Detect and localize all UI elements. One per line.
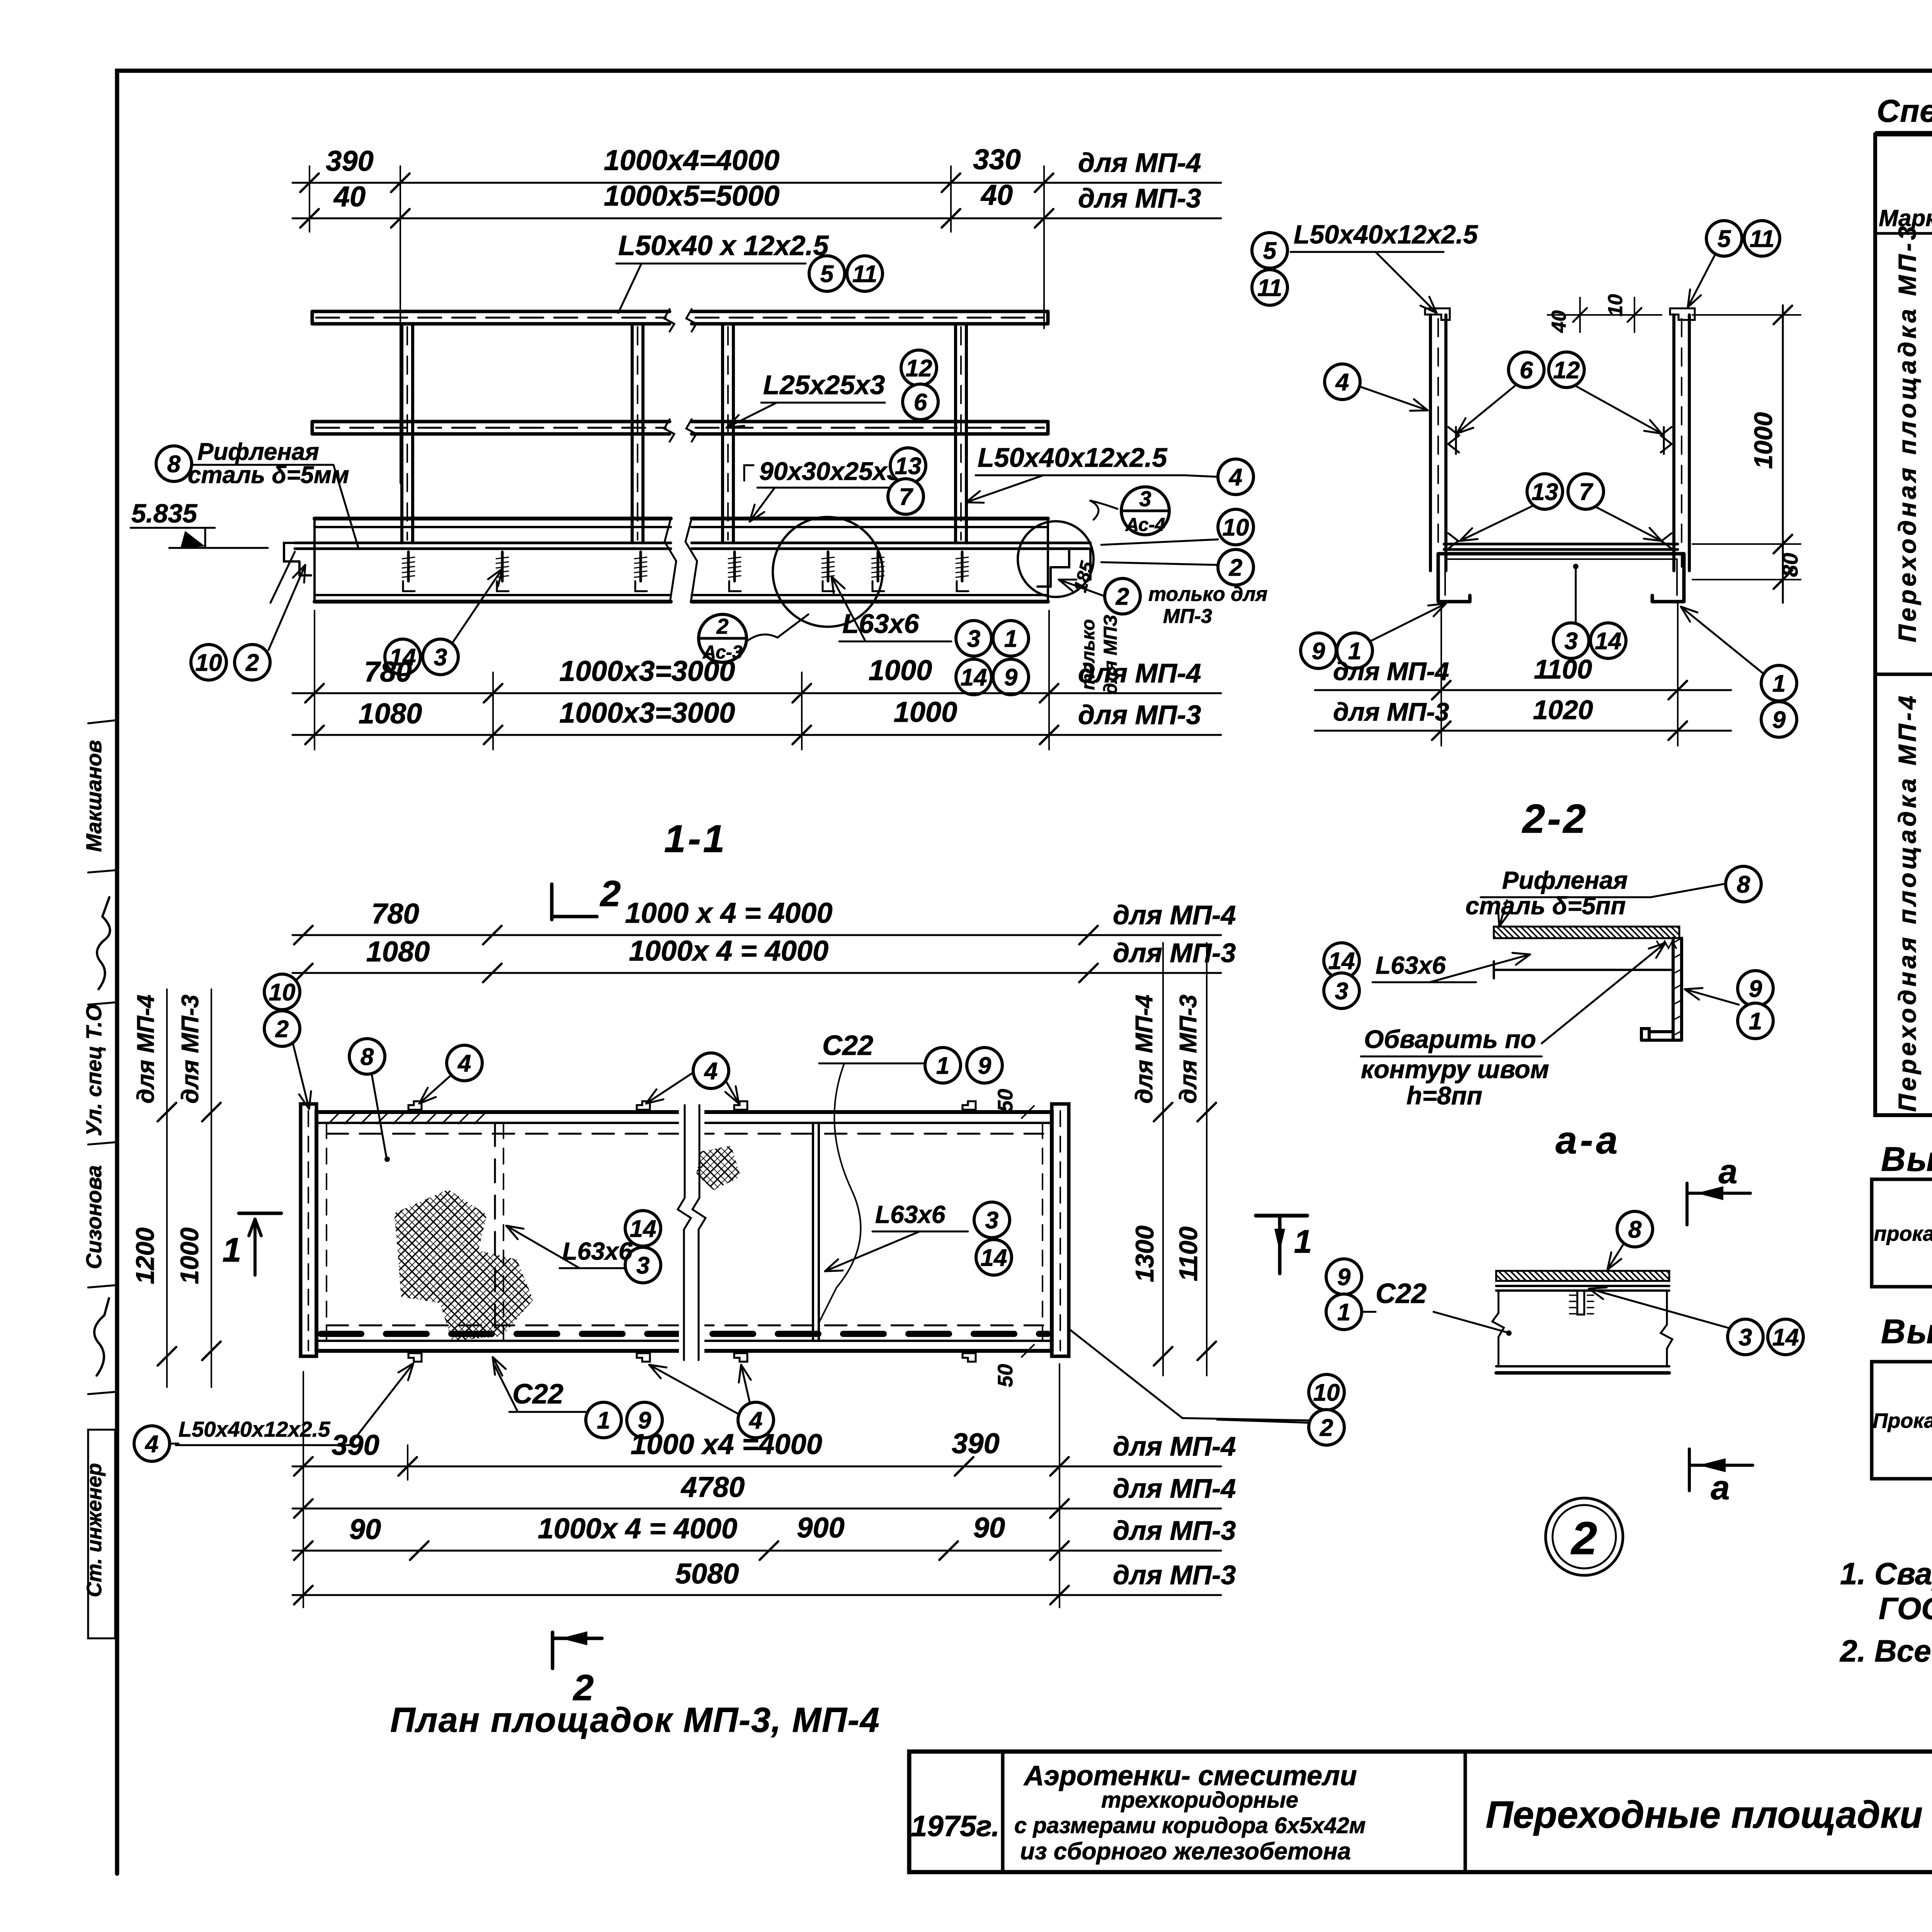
plan inner dashed lines [327,1133,1043,1135]
bubble 4 top1 [447,1045,482,1081]
signature squiggle 2 [94,1298,109,1376]
bubbles 10 2 top-left of plan [264,974,300,1010]
section 1-1 : top dimension line (MP-4) [293,182,1221,184]
svg-text:90: 90 [349,1513,381,1545]
rail connection clips [1448,427,1459,454]
bubbles 3 14 (a-a) [1728,1319,1763,1355]
section marker a (bottom) [1688,1449,1691,1491]
section marker 1 (left of plan) [239,1212,281,1215]
svg-text:2. Все сварные швы h = 4мм: 2. Все сварные швы h = 4мм. [1839,1634,1932,1668]
svg-text:8: 8 [361,1044,374,1070]
svg-text:2: 2 [1229,554,1242,581]
svg-text:3: 3 [1739,1324,1752,1351]
svg-text:для МП-3: для МП-3 [1078,700,1201,730]
weld stud [1577,1291,1584,1315]
svg-text:14: 14 [1328,948,1355,975]
svg-text:3: 3 [1565,628,1578,655]
svg-text:1000 x 4 = 4000: 1000 x 4 = 4000 [625,897,832,929]
svg-text:С22: С22 [822,1030,873,1061]
svg-text:90: 90 [973,1512,1005,1544]
floor plate 2-2 [1444,543,1678,546]
section marker a (top) [1685,1183,1689,1225]
svg-text:для МП-4: для МП-4 [133,995,159,1104]
svg-text:Ул. спец Т.О: Ул. спец Т.О [82,1004,106,1136]
svg-text:1-1: 1-1 [664,817,727,861]
svg-text:контуру швом: контуру швом [1361,1055,1549,1083]
svg-text:40: 40 [333,180,366,213]
svg-text:для МП-3: для МП-3 [1113,1515,1236,1546]
svg-text:14: 14 [630,1216,656,1242]
bubbles 9 1 lower-left [1301,633,1336,668]
svg-text:2: 2 [600,873,621,914]
svg-text:для МП-4: для МП-4 [1113,1431,1236,1461]
svg-text:для МП-3: для МП-3 [1078,183,1201,213]
split bubble 2/Ac-3 [699,614,747,662]
svg-text:для МП-3: для МП-3 [1333,697,1449,726]
svg-text:из сборного железобетона: из сборного железобетона [1020,1838,1351,1865]
svg-text:11: 11 [852,261,877,287]
svg-text:80: 80 [1778,553,1802,577]
svg-text:8: 8 [1628,1216,1642,1243]
svg-text:ГОСТ 9467-60.: ГОСТ 9467-60. [1879,1591,1932,1626]
right post (channel) [1672,315,1675,571]
svg-text:Рифленая: Рифленая [197,439,319,465]
svg-text:4: 4 [457,1050,471,1077]
bubbles 3 14 below floor [1553,623,1589,658]
detail circle around bolt [773,517,883,627]
bubbles 10 2 lower left [191,645,226,680]
left post (channel) [1429,315,1432,571]
svg-text:а: а [1711,1468,1730,1507]
bubble 4 with arrow to left post [1325,364,1360,400]
svg-text:3: 3 [1139,486,1151,511]
separator ticks [88,720,116,723]
node marker circled 2 [1546,1498,1623,1575]
split bubble 3/Ac-4 [1090,500,1117,520]
bubbles 1 9 lower-right [1761,665,1797,701]
svg-text:1: 1 [1772,670,1786,697]
svg-text:1000: 1000 [869,654,932,686]
svg-text:40: 40 [1548,310,1570,333]
svg-text:L63x6: L63x6 [1376,951,1446,979]
section 2-2 : callout L50x40x12x2.5 bubbles 5 11 (left) [1252,233,1287,268]
svg-text:8: 8 [1737,871,1750,898]
plan left end plate [301,1104,316,1356]
detail: checkered plate on C22 [1494,927,1679,938]
extension lines [400,166,401,483]
svg-text:1000x3=3000: 1000x3=3000 [560,655,735,687]
bubbles 9 1 with C22 label [1326,1259,1362,1294]
svg-text:12: 12 [1553,357,1580,384]
small dims 40 10 [1548,314,1662,316]
post at x=2487 [954,324,957,543]
svg-text:2: 2 [245,650,259,676]
svg-text:1: 1 [1749,1008,1762,1035]
svg-text:1080: 1080 [359,697,422,730]
post at x=1054 [400,324,403,543]
svg-text:1000: 1000 [894,696,957,728]
svg-text:Обварить по: Обварить по [1364,1025,1536,1053]
section 2-2 dim lines [1315,689,1731,691]
svg-text:для МП-3: для МП-3 [1113,1560,1236,1590]
svg-text:9: 9 [1337,1264,1351,1291]
svg-text:1000: 1000 [1749,412,1777,469]
svg-text:5: 5 [1718,226,1731,252]
svg-text:1000 x4 =4000: 1000 x4 =4000 [631,1428,822,1460]
svg-text:для МП-4: для МП-4 [1078,148,1201,178]
plan top edge weld hatching [328,1114,485,1124]
svg-text:1000: 1000 [175,1227,204,1284]
plan bottom dim line 4 (5080) [293,1594,1221,1596]
svg-text:10: 10 [1223,514,1249,541]
floor clips 13 7 [1527,474,1563,509]
svg-text:4: 4 [1335,369,1349,396]
bubble 4 top2 with two arrows [693,1053,729,1088]
svg-text:Переходная площадка МП-4: Переходная площадка МП-4 [1893,693,1921,1112]
svg-text:для МП-3: для МП-3 [177,995,204,1104]
section cut marker 2 (top of plan) [550,884,554,920]
svg-text:13: 13 [895,453,922,480]
bubble 8 on plan [349,1039,385,1074]
svg-text:Макшанов: Макшанов [82,740,106,852]
svg-text:10: 10 [1604,294,1627,316]
hatched blob large [394,1189,533,1341]
detail circle right end [1018,521,1094,597]
svg-text:1000x 4 = 4000: 1000x 4 = 4000 [538,1512,737,1544]
svg-text:L63x6: L63x6 [562,1237,633,1265]
bubble 8 (a-a) [1617,1211,1653,1247]
svg-text:для МП-4: для МП-4 [1333,657,1449,685]
svg-text:5: 5 [1263,238,1277,264]
floor channel 2-2 [1438,554,1684,602]
bubbles 9 1 (detail) [1738,971,1773,1006]
svg-text:7: 7 [1579,479,1594,505]
svg-text:8: 8 [167,451,181,478]
svg-text:1200: 1200 [131,1227,159,1284]
svg-text:10: 10 [196,650,222,676]
section 1-1 : second dimension line (MP-3) [293,218,1221,219]
section marker 1 (right of plan) [1256,1214,1307,1218]
svg-text:2: 2 [1571,1512,1597,1564]
svg-text:9: 9 [1772,707,1786,733]
bottom bubble 4 two arrows [738,1402,774,1438]
a-a beam: checkered plate [1496,1271,1669,1281]
svg-text:330: 330 [973,143,1020,175]
section cut marker 2 (bottom) [551,1632,554,1668]
svg-text:390: 390 [332,1429,379,1461]
left end angle clip [284,543,311,575]
beam webs with breaks [1492,1291,1504,1366]
C22 channel cross-section (detail) [1641,938,1682,1040]
svg-text:1000x3=3000: 1000x3=3000 [560,697,735,729]
plan bottom clips pos.4 [408,1353,422,1362]
svg-text:50: 50 [994,1089,1017,1112]
hanger bolts [407,552,410,581]
svg-text:1: 1 [597,1407,610,1434]
svg-text:для МП-4: для МП-4 [1078,658,1201,688]
svg-text:Рифленая: Рифленая [1502,866,1628,894]
svg-text:2: 2 [1320,1415,1333,1441]
svg-text:2: 2 [275,1016,289,1043]
svg-text:а-а: а-а [1556,1119,1621,1162]
svg-text:4: 4 [145,1431,158,1458]
svg-text:для МП-4: для МП-4 [1131,995,1158,1104]
plan bottom dim line 1 [293,1466,1221,1468]
svg-text:L63x6: L63x6 [875,1201,946,1228]
svg-text:Переходная площадка МП-3: Переходная площадка МП-3 [1893,223,1921,643]
section 1-1 bottom dim line 1 [293,692,1221,694]
spec table frame [1875,134,1932,1115]
svg-text:Выборка металла на площадку М: Выборка металла на площадку МП-3 [1881,1140,1932,1178]
bubbles 14 3 with leader to bolt [385,639,420,675]
svg-text:5080: 5080 [675,1558,739,1590]
svg-text:1: 1 [1337,1299,1350,1326]
svg-text:с размерами коридора 6х5х42м: с размерами коридора 6х5х42м [1014,1813,1366,1838]
svg-text:L25x25x3: L25x25x3 [763,370,885,400]
svg-text:сталь δ=5пп: сталь δ=5пп [1466,892,1626,920]
svg-text:Ст. инженер: Ст. инженер [83,1463,106,1597]
svg-text:900: 900 [797,1512,844,1544]
svg-text:Ас-4: Ас-4 [1125,515,1165,535]
beam bottom flange [1496,1365,1669,1367]
L63x6 callout mid-plan bubbles 14 3 [625,1211,661,1246]
hatched blob small [696,1146,741,1190]
svg-text:МП-3: МП-3 [1163,605,1212,628]
svg-text:С22: С22 [1376,1278,1427,1309]
svg-text:9: 9 [1004,664,1018,691]
plan compartment divider 1 [494,1123,496,1341]
svg-text:1080: 1080 [366,935,430,968]
svg-text:Переходные площадки МП-3, МП-4: Переходные площадки МП-3, МП-4 [1486,1793,1932,1836]
svg-text:1: 1 [1004,626,1017,652]
svg-text:а: а [1719,1152,1738,1190]
svg-text:Прокат: Прокат [1873,1409,1932,1432]
svg-text:390: 390 [952,1427,999,1459]
svg-text:7: 7 [899,484,913,510]
svg-text:3: 3 [434,644,447,671]
svg-text:10: 10 [1313,1379,1340,1406]
svg-text:12: 12 [906,355,932,382]
svg-text:1100: 1100 [1174,1226,1202,1281]
svg-text:L50x40 x 12x2.5: L50x40 x 12x2.5 [618,230,829,261]
right end angle clip [1037,549,1090,587]
svg-text:1000x5=5000: 1000x5=5000 [604,180,780,212]
middle rail L25x25x3 [312,420,670,423]
svg-text:14: 14 [1772,1324,1799,1351]
svg-text:L63x6: L63x6 [842,609,920,639]
svg-text:14: 14 [961,664,987,691]
section 1-1 bottom dim line 2 [293,734,1221,736]
svg-text:С22: С22 [512,1379,563,1410]
svg-text:3: 3 [985,1207,998,1234]
weld zigzag [1657,941,1676,948]
svg-text:780: 780 [364,656,412,688]
right vertical dim 1000 / 80 [1782,305,1784,603]
svg-text:трехкоридорные: трехкоридорные [1101,1787,1298,1813]
plan main outline [316,1112,1052,1351]
plan second dim line (MP-3) [293,972,1221,974]
svg-text:L50x40x12x2.5: L50x40x12x2.5 [978,442,1168,473]
plan bottom edge heavy dashes [321,1331,1048,1337]
svg-text:для МП-3: для МП-3 [1113,938,1236,968]
riffled steel callout bubble 8 [156,446,192,481]
svg-text:1000x4=4000: 1000x4=4000 [604,144,780,176]
floor band : C22 channel with checkered plate [315,517,671,520]
svg-text:14: 14 [1595,628,1622,655]
bubbles 10 2 leader from plan [1309,1374,1344,1410]
svg-text:Сизонова: Сизонова [82,1165,106,1269]
svg-text:9: 9 [1312,638,1325,665]
svg-text:1000x 4 = 4000: 1000x 4 = 4000 [629,935,828,967]
svg-text:1975г.: 1975г. [911,1810,1000,1843]
svg-text:3: 3 [1335,978,1348,1005]
svg-text:для МП-4: для МП-4 [1113,1473,1236,1503]
svg-text:3: 3 [967,626,980,652]
svg-text:4780: 4780 [680,1471,745,1503]
svg-text:L50x40x12x2.5: L50x40x12x2.5 [1294,220,1478,249]
svg-text:90x30x25x3: 90x30x25x3 [759,457,901,485]
signature squiggle 1 [97,897,110,989]
svg-text:1020: 1020 [1533,695,1593,725]
svg-text:14: 14 [981,1245,1007,1271]
bubbles 6 12 with arrows to rail clips [1509,352,1544,388]
svg-text:11: 11 [1750,226,1774,252]
post at x=1884 [721,324,724,543]
svg-text:1100: 1100 [1534,654,1592,684]
plan top dim line (MP-4) [293,934,1221,936]
svg-text:5.835: 5.835 [131,499,197,528]
plan bottom dim line 3 [293,1550,1221,1552]
svg-text:11: 11 [1257,275,1282,301]
svg-text:6: 6 [1520,357,1533,384]
svg-text:2: 2 [716,614,728,638]
svg-text:1. Сварку производить электр: 1. Сварку производить электродами э-42 [1840,1556,1932,1591]
title block frame [909,1752,1932,1872]
svg-text:2-2: 2-2 [1522,796,1588,842]
svg-text:50: 50 [994,1364,1017,1387]
bottom-left callout 4 L50x40x12x2.5 [134,1426,170,1461]
svg-text:Выборка металла на площадку М: Выборка металла на площадку МП-4 [1881,1312,1932,1350]
svg-text:только для: только для [1148,583,1267,605]
plan top clips pos.4 [408,1101,422,1110]
section separator [1875,673,1932,676]
svg-text:10: 10 [269,979,296,1006]
plan compartment divider 2 [812,1123,814,1341]
svg-text:4: 4 [1228,464,1242,491]
svg-text:1: 1 [936,1053,949,1079]
svg-text:9: 9 [978,1053,992,1079]
svg-text:L50x40x12x2.5: L50x40x12x2.5 [179,1417,330,1441]
handrail top rail [312,310,670,313]
only for MP-3 note [1105,578,1140,614]
svg-text:40: 40 [980,179,1013,211]
svg-text:13: 13 [1532,479,1558,505]
svg-text:2: 2 [1116,583,1129,610]
svg-text:h=8пп: h=8пп [1406,1081,1482,1110]
svg-text:Спецификация металла на 1 м: Спецификация металла на 1 марку [1877,94,1932,129]
svg-text:5: 5 [820,261,834,287]
svg-text:4: 4 [704,1058,718,1085]
svg-text:1: 1 [1294,1223,1312,1260]
bubbles 5 11 (right) [1706,221,1742,256]
leader to left plate end [270,552,295,603]
plan middle break [679,1105,704,1360]
svg-text:Аэротенки- смесители: Аэротенки- смесители [1023,1760,1357,1791]
svg-text:3: 3 [636,1252,650,1279]
post at x=1650 [631,324,634,543]
svg-text:1300: 1300 [1130,1225,1159,1282]
svg-text:390: 390 [326,145,373,177]
svg-text:для МП-4: для МП-4 [1113,900,1236,930]
svg-text:780: 780 [371,898,419,930]
svg-text:для МП-3: для МП-3 [1175,995,1202,1104]
svg-text:План площадок МП-3, МП-4: План площадок МП-3, МП-4 [390,1701,880,1740]
plan bottom dim line 2 (4780) [293,1508,1221,1510]
svg-text:9: 9 [1749,976,1762,1002]
svg-text:6: 6 [914,389,927,416]
svg-text:прокат: прокат [1874,1222,1932,1245]
L63x6 angle line [1494,969,1673,971]
bubbles 14 3 (detail) [1324,943,1359,978]
svg-text:1: 1 [223,1231,241,1269]
plan right end plate [1052,1104,1069,1356]
